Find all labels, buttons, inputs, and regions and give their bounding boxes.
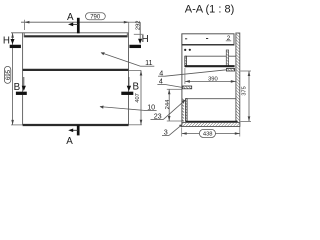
section label A bottom stem xyxy=(72,129,79,131)
back panel hatched strip xyxy=(236,33,240,126)
section top band bottom thick xyxy=(182,44,234,46)
mid rail hatched xyxy=(182,86,191,89)
lower drawer front strip hatched xyxy=(186,99,188,122)
screw dot left below band xyxy=(184,49,186,51)
dimension 407 top arrow xyxy=(140,71,143,76)
note 2 underline xyxy=(226,40,231,42)
section top band xyxy=(182,34,234,45)
section label A bottom arrowhead xyxy=(68,129,73,133)
note 10 leader arrowhead xyxy=(100,106,104,109)
section label A top bar xyxy=(77,18,80,34)
lower drawer bottom thick xyxy=(186,121,238,123)
upper rail hatched xyxy=(226,69,234,72)
upper drawer front strip hatched xyxy=(185,56,187,66)
note 4 second leader xyxy=(165,84,184,87)
dimension 390 line xyxy=(185,80,236,82)
section label H left bar xyxy=(10,45,21,48)
dimension 244 top arrow xyxy=(168,89,171,94)
upper drawer bottom thick xyxy=(185,65,235,67)
note 23 leader arrowhead xyxy=(181,100,185,104)
upper drawer top edge xyxy=(185,55,236,57)
note 3 underline xyxy=(162,134,169,136)
dimension 695 line xyxy=(12,33,14,125)
dimension 438 right extension xyxy=(239,127,241,137)
svg-text:244: 244 xyxy=(165,99,171,109)
section label B right arrowhead xyxy=(127,86,131,91)
dimension 790 line xyxy=(21,21,129,23)
dimension 407 line xyxy=(140,71,142,125)
section label H left arrowhead xyxy=(11,39,15,44)
note 4 second underline xyxy=(157,83,164,85)
dimension 244 bottom arrow xyxy=(168,116,171,121)
section label A bottom bar xyxy=(77,125,80,135)
dimension 407 bottom arrow xyxy=(140,120,143,125)
dimension 438 left arrow xyxy=(182,132,187,135)
svg-text:H: H xyxy=(3,35,10,46)
dimension 375 bottom extension xyxy=(240,120,251,122)
svg-text:375: 375 xyxy=(241,86,247,95)
lower drawer top edge xyxy=(186,98,237,100)
dimension 375 bottom arrow xyxy=(248,116,251,121)
dimension 695 top arrow xyxy=(11,33,14,38)
dimension 390 left extension xyxy=(184,68,186,84)
section label H right arrowhead xyxy=(138,39,142,44)
section label A top arrowhead xyxy=(68,23,73,27)
drawer front top edge left jog xyxy=(23,33,25,37)
drawer divider line xyxy=(23,69,129,71)
dimension line link to 292 xyxy=(129,21,140,23)
svg-text:3: 3 xyxy=(164,127,168,136)
note leader 11 xyxy=(101,53,141,67)
dimension 438 right arrow xyxy=(235,132,240,135)
dimension 292 extension tick xyxy=(134,33,144,35)
svg-text:H: H xyxy=(142,34,149,45)
svg-text:A-A (1 : 8): A-A (1 : 8) xyxy=(185,4,235,16)
note leader 11 arrowhead xyxy=(101,52,105,55)
dimension 695 oval frame xyxy=(4,66,10,83)
section left stile hatch ticks xyxy=(182,99,184,122)
drawer front top edge thick xyxy=(24,35,127,37)
note 10 leader xyxy=(100,107,144,111)
note 10 underline xyxy=(144,109,157,111)
dimension 438 left extension xyxy=(181,128,183,137)
svg-text:11: 11 xyxy=(145,58,152,67)
note 3 leader arrowhead xyxy=(179,124,183,127)
note 3 leader xyxy=(169,124,183,135)
svg-text:B: B xyxy=(133,82,140,93)
svg-text:B: B xyxy=(14,82,21,93)
dimension 790 left arrow xyxy=(24,21,29,24)
dimension 438 oval frame xyxy=(199,129,215,137)
dimension 790 right arrow xyxy=(124,21,129,24)
upper drawer back strip hatched xyxy=(226,50,228,67)
screw dash 2 in top band xyxy=(206,38,208,40)
svg-text:790: 790 xyxy=(90,15,101,21)
note 4 first leader xyxy=(165,70,226,76)
bottom extension line left xyxy=(11,124,23,126)
bottom extension line right xyxy=(129,124,142,126)
bottom panel hatched band xyxy=(182,123,240,127)
screw dash 1 in top band xyxy=(185,38,187,40)
section label A top stem xyxy=(72,23,79,25)
svg-text:407: 407 xyxy=(135,93,141,102)
front view carcass top edge xyxy=(11,32,129,34)
section label B left bar xyxy=(16,92,27,95)
note 23 leader xyxy=(163,100,185,120)
note 23 underline xyxy=(151,119,164,121)
front view right edge xyxy=(128,33,130,125)
section outer left edge xyxy=(181,34,183,127)
dimension 390 left arrow xyxy=(185,80,190,83)
drawer front top edge right jog xyxy=(126,33,128,37)
section label H right stem xyxy=(139,22,141,38)
svg-text:A: A xyxy=(66,136,73,146)
dimension 790 oval frame xyxy=(86,13,106,20)
front view bottom edge thick xyxy=(23,124,129,126)
section label B left arrowhead xyxy=(22,86,26,91)
dimension 790 left extension xyxy=(23,20,25,30)
screw dot right below band xyxy=(189,49,191,51)
dimension 244 line xyxy=(168,89,170,121)
dimension 244 top extension xyxy=(167,88,182,90)
dimension 375 top extension xyxy=(240,70,251,72)
note 4 first underline xyxy=(158,75,165,77)
dimension 244 bottom extension xyxy=(167,120,183,122)
note 11 underline xyxy=(141,65,155,67)
dimension 375 top arrow xyxy=(248,71,251,76)
dimension 438 line xyxy=(182,133,240,135)
svg-text:292: 292 xyxy=(136,20,142,30)
svg-text:390: 390 xyxy=(208,77,218,83)
front view left edge xyxy=(22,33,24,125)
section label H right bar xyxy=(129,45,141,48)
section label B left stem xyxy=(23,77,25,87)
dimension 790 right extension xyxy=(128,22,130,33)
section label B right bar xyxy=(121,92,133,95)
svg-text:A: A xyxy=(67,12,74,23)
dimension 375 line xyxy=(248,71,250,121)
dimension 390 right arrow xyxy=(231,80,236,83)
svg-text:695: 695 xyxy=(6,69,12,80)
dimension 407 extension top xyxy=(129,70,141,72)
svg-text:438: 438 xyxy=(203,132,213,138)
section label B right stem xyxy=(128,77,130,87)
dimension 695 bottom arrow xyxy=(11,120,14,125)
